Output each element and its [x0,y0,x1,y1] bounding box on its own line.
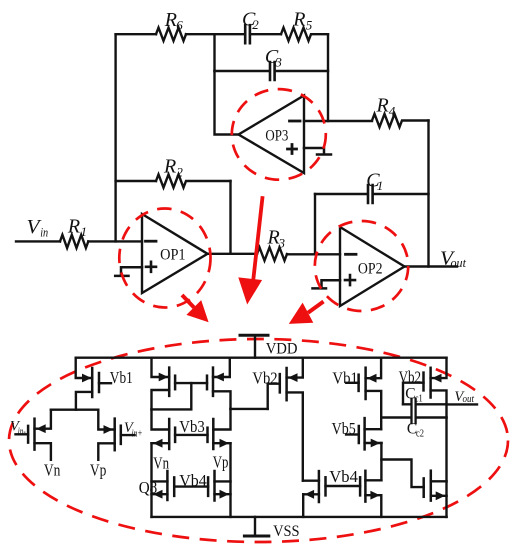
wire input-pair source rail [51,409,98,411]
svg-text:Vn: Vn [153,454,169,473]
wire R6 left segment [116,33,156,35]
svg-text:2: 2 [176,164,183,179]
svg-text:Vb5: Vb5 [332,419,356,438]
transistor input Vin- (left of diff pair) [16,410,51,460]
svg-text:2: 2 [252,17,259,32]
ground at OP2 plus input [313,280,341,288]
VSS stub [254,517,256,536]
svg-text:out: out [451,255,467,270]
resistor R1 [60,235,88,248]
wire C3 left segment [215,70,269,72]
svg-text:OP2: OP2 [358,261,383,278]
VDD stub [254,335,256,357]
svg-text:Vn: Vn [44,460,61,479]
OP1 plus sign [146,262,156,272]
svg-text:R: R [292,8,305,30]
svg-text:Vb1: Vb1 [110,368,133,387]
wire R6 to C2 with junction at x=214.5 [186,33,243,35]
transistor Vb4 pair left (bottom middle) [303,471,326,517]
op-amp OP1 triangle [142,214,208,293]
wire R2 row [116,180,156,182]
wire Vout (transistor level) [447,403,477,405]
transistor Vb3 left cascode [152,409,176,517]
transistor mirror left (PMOS load) [152,358,176,410]
transistor Vb4 (right of Q8) [208,471,230,501]
large dashed ellipse around transistor-level circuit [9,339,508,542]
capacitor Cc2 [412,412,447,423]
svg-text:R: R [67,215,80,237]
svg-text:in-: in- [18,427,26,438]
svg-text:VDD: VDD [266,341,298,358]
svg-text:4: 4 [389,104,396,119]
VSS supply bar [244,535,268,538]
wire Vb3 gate tie [175,434,207,436]
svg-text:Vb4: Vb4 [329,467,358,486]
wire VSS bottom rail [152,516,447,518]
wire Vin input to OP1 minus node [16,240,60,242]
wire C1 left down to OP2 minus wire [314,194,316,254]
svg-text:Vb3: Vb3 [179,417,205,436]
svg-text:R: R [163,155,176,177]
wire mirror gate tie [175,382,207,384]
svg-text:5: 5 [306,18,313,33]
transistor mirror right (PMOS load) [207,358,231,409]
red arrow from OP3 down to transistor-level circuit [238,196,262,304]
wire R2 right end down to OP1 output [229,181,231,254]
transistor Vb2 (far right PMOS) [403,358,447,517]
transistor Q8 (NMOS) [152,471,175,500]
svg-text:6: 6 [176,18,183,33]
wire R3 to OP2 minus input [287,253,340,255]
svg-text:OP3: OP3 [265,127,288,144]
transistor Vb4 pair right (bottom middle) [360,471,381,517]
svg-text:3: 3 [274,55,282,70]
svg-text:Vb2: Vb2 [399,367,422,386]
svg-text:1: 1 [81,224,88,239]
transistor output NMOS (bottom right) [424,471,447,501]
wire compensation node to Cc2 [381,416,411,418]
wire OP3 minus input to R4 node [304,120,372,122]
wire OP2 output to Vout [405,265,458,267]
wire VDD top rail [76,357,447,359]
wire right vertical R5/C3 down to OP3 minus wire [327,34,329,121]
op-amp OP3 triangle (pointing left) [239,96,305,174]
dashed circle around OP3 [232,89,326,180]
svg-text:Vp: Vp [213,453,229,472]
transistor Vb2 (second stage PMOS middle) [268,358,303,481]
svg-text:c2: c2 [416,429,424,440]
transistor Vb1 tail current source (left) [76,358,111,410]
VDD supply bar [240,334,268,337]
OP3 plus sign [288,145,297,154]
op-amp OP2 triangle [340,227,405,306]
resistor R6 [156,28,186,41]
wire OP1 output to R3 [208,253,258,255]
wire C1 left segment [315,193,366,195]
ground at OP3 plus input [304,148,331,155]
svg-text:Q8: Q8 [139,478,158,497]
wire C2 to R5 [250,33,281,35]
OP1 minus sign [146,240,157,243]
wire C1 right segment [373,193,429,195]
svg-text:in: in [40,225,48,240]
svg-text:1: 1 [377,178,384,193]
red arrow from OP1 circle to bottom circuit [182,295,209,322]
svg-text:out: out [463,394,475,405]
transistor Vb1 (right, second stage PMOS) [346,358,381,430]
wire R1 to OP1 minus input [88,240,142,242]
resistor R2 [156,174,231,187]
wire Vb5 source to bottom-right gate [381,460,423,488]
OP3 minus sign [290,120,301,123]
svg-text:OP1: OP1 [160,246,186,263]
svg-text:in+: in+ [132,428,143,439]
transistor Vb3 right cascode [208,409,231,517]
dashed circle around OP2 [315,221,408,311]
resistor R4 [372,114,429,127]
OP2 plus sign [345,275,355,285]
OP2 minus sign [346,253,357,256]
svg-text:3: 3 [278,236,286,251]
capacitor C1 [368,185,373,203]
svg-text:Vb4: Vb4 [179,471,207,490]
dashed circle around OP1 [119,209,210,308]
wire OP3 output to left vertical [215,71,239,135]
ground at OP1 plus input [115,267,142,276]
wire first-stage output node to Vb2 gate riser [231,408,268,410]
transistor Vb5 (NMOS cascode right) [346,418,382,480]
resistor R3 [257,247,287,260]
red arrow from OP2 circle to bottom circuit [289,302,324,324]
node vertical from Vin node up to R6 [114,34,116,241]
wire mirror diode connection [152,383,192,409]
svg-text:Vp: Vp [90,460,107,479]
node vertical C2-row down to C3 row [213,34,215,71]
capacitor C2 [245,25,250,43]
svg-text:R: R [376,95,389,117]
wire C3 right segment [275,70,328,72]
svg-text:R: R [164,9,177,31]
wire Q8/Vb4 gate tie [174,485,208,487]
transistor input Vin+ (right of diff pair) [98,410,134,460]
resistor R5 [281,28,328,41]
svg-text:Vb2: Vb2 [252,369,277,388]
svg-text:Vb1: Vb1 [332,368,358,387]
capacitor C3 [270,62,275,80]
wire Vb4 right pair gate tie [326,485,361,487]
svg-text:c1: c1 [415,394,423,405]
capacitor Cc1 [403,399,447,410]
wire R4 right end down to C1 and Vout node [427,121,429,267]
svg-text:VSS: VSS [273,523,300,540]
